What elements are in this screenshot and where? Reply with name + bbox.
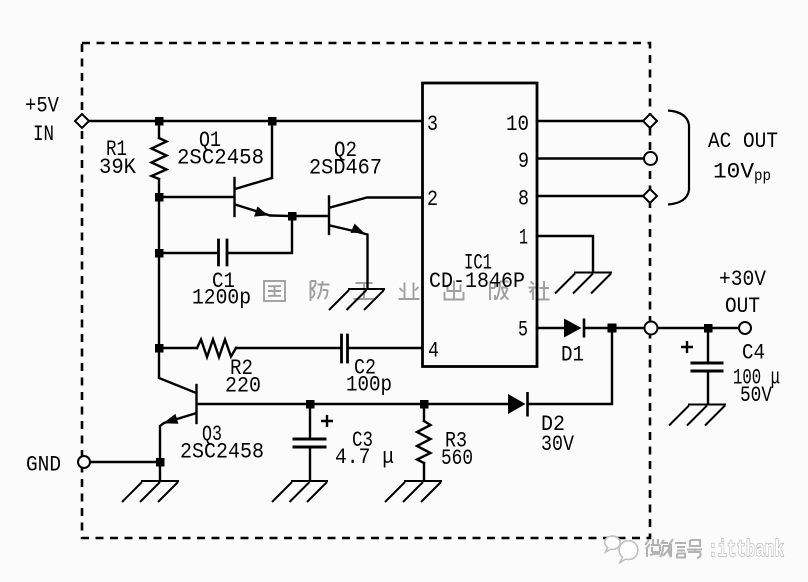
bottom-right watermark: wechat icon + 微信号:ittbank [605, 536, 784, 563]
wire C3 bottom lead [309, 448, 311, 480]
svg-text:2: 2 [427, 187, 438, 212]
terminal +30V rail (circle) [645, 322, 658, 335]
svg-text:1200p: 1200p [192, 286, 251, 311]
ground (R3) [385, 481, 442, 502]
diode D1 [564, 319, 584, 338]
capacitor C2 [342, 335, 348, 362]
terminal pin8 (diamond) [643, 189, 657, 203]
svg-text:4.7 μ: 4.7 μ [335, 445, 394, 470]
wire Q3 base lead [197, 403, 310, 405]
svg-text:100p: 100p [346, 373, 392, 398]
wire D1 cathode to output [585, 327, 645, 329]
ground symbols: line + 3 hatches [122, 273, 726, 503]
plus sign C3 [321, 415, 333, 427]
transistor Q2 [328, 197, 330, 235]
svg-text:pp: pp [754, 167, 771, 185]
wire R1 top lead [158, 121, 160, 138]
wire bottom rail [310, 403, 507, 405]
Q2 emitter arrow [351, 224, 365, 233]
diode D2 [508, 392, 528, 417]
svg-text:5: 5 [518, 318, 528, 343]
capacitor C1 [219, 240, 228, 265]
wire R3 top lead [423, 404, 425, 421]
svg-text:9: 9 [518, 149, 529, 174]
wire D2 cathode to vertical [528, 328, 612, 404]
node C4-top [704, 324, 713, 333]
ground (C4) [669, 405, 726, 426]
svg-text:8: 8 [518, 187, 529, 212]
svg-text:10V: 10V [713, 160, 755, 185]
plus sign C4 [681, 341, 693, 353]
wire Q1 base lead [159, 196, 234, 198]
node rail-R1 [155, 117, 164, 126]
node D1-D2 [608, 324, 617, 333]
svg-text:220: 220 [225, 374, 261, 399]
wire R2 left lead [159, 347, 197, 349]
terminal pin9 (circle) [644, 152, 657, 165]
watermark char 防 [311, 281, 330, 301]
wechat icon big bubble [619, 541, 638, 563]
号 [687, 540, 702, 558]
svg-text:2SD467: 2SD467 [309, 156, 382, 181]
svg-text:2SC2458: 2SC2458 [177, 146, 264, 171]
svg-text:C4: C4 [742, 341, 765, 366]
resistor R1 [152, 138, 167, 179]
svg-text:IN: IN [33, 122, 54, 147]
node R2-left [155, 344, 164, 353]
wire C3 top lead [309, 404, 311, 438]
wire R2 to C2 [236, 347, 340, 349]
svg-text:50V: 50V [740, 383, 773, 408]
node C1-left [155, 249, 164, 258]
wire pin 5 to D1 [537, 327, 564, 329]
微 [645, 539, 671, 557]
svg-text:4: 4 [428, 339, 439, 364]
capacitor C3 [294, 439, 325, 447]
node rail-Q1C [268, 117, 277, 126]
wire left vertical node [158, 197, 160, 348]
svg-text:2SC2458: 2SC2458 [180, 440, 264, 465]
svg-text:39K: 39K [99, 155, 137, 180]
wire R1 bottom lead [158, 179, 160, 197]
dashed enclosure border [82, 43, 650, 538]
node Q1E-Q2B [288, 212, 297, 221]
wire pin 10 out [537, 120, 643, 122]
wechat icon small bubble [605, 536, 621, 552]
svg-text:GND: GND [26, 453, 61, 478]
wire C1 right [228, 216, 292, 253]
svg-text:1: 1 [519, 226, 528, 251]
wire Q2 base lead [292, 215, 328, 217]
resistor R3 [417, 421, 431, 463]
信 [669, 539, 686, 558]
capacitor C4 [692, 363, 722, 371]
wire +5V rail to IC pin 3 [89, 120, 422, 122]
watermark 国防工业出版社 [264, 281, 550, 302]
wire C4 top lead [707, 328, 709, 361]
terminal +5V IN (diamond) [75, 114, 89, 128]
terminal GND (circle) [78, 456, 90, 468]
watermark char 出 [445, 281, 464, 300]
IC1 box [423, 83, 538, 367]
wire output circle to terminal [658, 327, 740, 329]
wire GND to emitter node [90, 461, 160, 463]
ground (IC pin 1) [555, 273, 612, 294]
watermark char 版 [490, 282, 509, 301]
terminal pin10 (diamond) [643, 114, 657, 128]
terminals [75, 114, 751, 468]
resistor R2 [197, 340, 236, 358]
node C3-top [306, 400, 315, 409]
wire C2 to IC pin 4 [349, 347, 423, 349]
ground (C3) [272, 481, 328, 502]
svg-text:+30V: +30V [719, 267, 767, 292]
watermark char 国 [264, 281, 285, 301]
brace for AC OUT [668, 111, 689, 205]
svg-text:10: 10 [506, 112, 529, 137]
ground (GND input node) [122, 481, 179, 502]
wire pin 1 to ground [537, 236, 593, 272]
wire pin 8 out [537, 195, 643, 197]
watermark char 社 [529, 281, 550, 300]
node R1-Q1B [155, 193, 164, 202]
svg-text:3: 3 [427, 112, 438, 137]
wire pin 9 out [537, 157, 644, 159]
Q3 emitter arrow [163, 414, 178, 424]
wire Q1 collector up [271, 121, 273, 178]
wire emitter node to ground [159, 462, 161, 480]
svg-text:D1: D1 [561, 343, 584, 368]
watermark char 业 [399, 283, 420, 300]
svg-text:CD-1846P: CD-1846P [429, 269, 525, 294]
watermark char 工 [354, 283, 375, 299]
junction dots (squares) [155, 117, 713, 467]
svg-text:30V: 30V [541, 432, 575, 457]
svg-text::ittbank: :ittbank [708, 537, 784, 563]
ground (Q2 emitter) [329, 289, 385, 310]
wire C1 left [159, 252, 218, 254]
wire C4 bottom lead [707, 372, 709, 404]
svg-text:OUT: OUT [725, 294, 760, 319]
node GND-emitter [156, 458, 165, 467]
wire R3 bottom lead [423, 463, 425, 480]
svg-text:560: 560 [441, 446, 473, 471]
svg-text:AC OUT: AC OUT [708, 129, 778, 154]
transistor Q3 [195, 385, 197, 423]
transistor Q1 [233, 178, 235, 216]
node R3-top [420, 400, 429, 409]
Q1 emitter arrow [254, 206, 268, 216]
terminal OUT (circle) [739, 322, 751, 334]
svg-text:+5V: +5V [25, 94, 60, 119]
